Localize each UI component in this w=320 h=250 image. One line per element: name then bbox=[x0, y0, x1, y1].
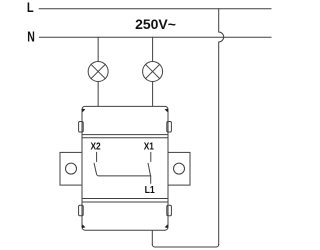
terminal lead X2 bbox=[96, 152, 98, 161]
module top cap double line bbox=[82, 135, 168, 138]
lamp E2 bbox=[143, 62, 163, 82]
wire L1 exit from module bottom bbox=[151, 230, 153, 244]
wire L feed right vertical with hop over N bbox=[219, 9, 224, 245]
switch module S1 outline bbox=[82, 106, 168, 230]
wire lamp E2 drop from N bbox=[152, 37, 154, 61]
svg-text:L: L bbox=[27, 0, 34, 15]
switch contact X2 bbox=[94, 163, 99, 176]
wire L bbox=[39, 8, 271, 10]
claw tab top-right bbox=[167, 122, 172, 133]
claw tab bottom-right bbox=[167, 205, 172, 216]
wire lamp E1 drop from N bbox=[97, 37, 99, 61]
lamp E1 bbox=[88, 62, 108, 82]
svg-text:250V~: 250V~ bbox=[135, 16, 176, 32]
mounting ear left bbox=[60, 152, 82, 185]
claw tab bottom-left bbox=[79, 205, 84, 216]
wire N bbox=[40, 36, 272, 38]
corner arrow top-left bbox=[82, 109, 86, 113]
wire L feed corner left bbox=[152, 245, 155, 248]
svg-text:N: N bbox=[27, 29, 35, 45]
wire lamp E2 to switch X1 bbox=[152, 82, 154, 107]
wire lamp E1 to switch X2 bbox=[97, 82, 99, 107]
terminal lead X1 bbox=[150, 152, 152, 161]
wire L feed corner right bbox=[216, 245, 219, 248]
corner arrow bottom-right bbox=[165, 225, 169, 229]
mounting ear right bbox=[168, 152, 190, 185]
switch contact X1 bbox=[148, 164, 150, 176]
wire internal common to L1 bbox=[99, 176, 151, 183]
svg-text:X2: X2 bbox=[91, 142, 101, 153]
corner arrow bottom-left bbox=[82, 225, 86, 229]
wire L feed bottom run bbox=[155, 246, 216, 248]
claw tab top-left bbox=[79, 122, 84, 133]
module bottom cap double line bbox=[82, 199, 168, 203]
svg-text:X1: X1 bbox=[144, 142, 154, 153]
svg-text:L1: L1 bbox=[145, 185, 155, 196]
module body fill bbox=[82, 106, 168, 230]
corner arrow top-right bbox=[165, 109, 169, 113]
